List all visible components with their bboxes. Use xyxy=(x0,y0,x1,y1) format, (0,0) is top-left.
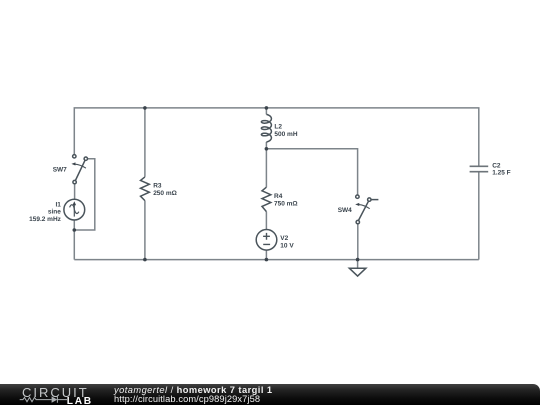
svg-text:250 mΩ: 250 mΩ xyxy=(153,190,177,197)
svg-text:C2: C2 xyxy=(492,162,501,169)
svg-text:SW4: SW4 xyxy=(338,207,352,214)
svg-text:V2: V2 xyxy=(280,235,288,242)
svg-text:500 mH: 500 mH xyxy=(274,131,297,138)
svg-text:R4: R4 xyxy=(274,193,283,200)
svg-text:sine: sine xyxy=(48,209,61,216)
svg-text:SW7: SW7 xyxy=(53,167,67,174)
svg-text:750 mΩ: 750 mΩ xyxy=(274,201,298,208)
svg-text:1.25 F: 1.25 F xyxy=(492,170,510,177)
svg-text:10 V: 10 V xyxy=(280,243,294,250)
svg-text:LAB: LAB xyxy=(67,396,93,405)
svg-text:159.2 mHz: 159.2 mHz xyxy=(29,216,62,223)
svg-text:L2: L2 xyxy=(274,124,282,131)
svg-text:R3: R3 xyxy=(153,183,162,190)
svg-text:I1: I1 xyxy=(55,201,61,208)
